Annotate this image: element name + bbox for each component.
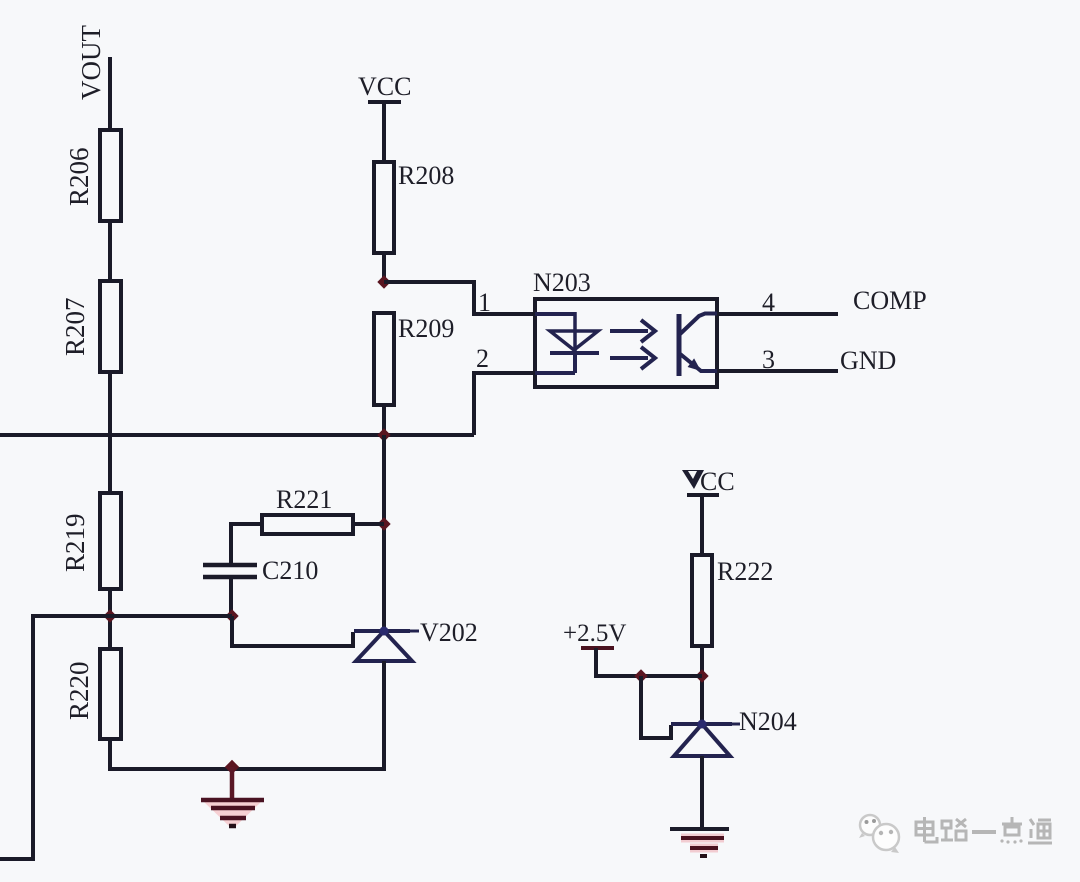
resistor R222: [692, 555, 712, 646]
wire VCC to R222: [700, 495, 704, 556]
wire R222 down to N204: [700, 646, 704, 726]
node COMP: [853, 286, 927, 315]
node GND: [840, 346, 896, 375]
watermark text dian: [916, 817, 937, 842]
resistor R207: [100, 281, 121, 372]
svg-text:R221: R221: [276, 485, 332, 514]
junction dot below R208: [377, 275, 390, 288]
svg-text:COMP: COMP: [853, 286, 927, 315]
opto phototransistor collector: [679, 314, 717, 336]
resistor R220: [100, 649, 121, 739]
wire pin 4 to COMP: [717, 312, 838, 316]
svg-text:R222: R222: [717, 557, 773, 586]
wire long horizontal net y=435: [0, 433, 474, 437]
watermark text dot: [1000, 817, 1022, 844]
resistor R221: [262, 515, 353, 534]
wire N204 anode to ground: [700, 756, 704, 830]
optocoupler N203 box: [535, 299, 717, 387]
opto LED cathode lead: [535, 353, 575, 373]
wire reference to V202: [232, 616, 353, 646]
svg-text:R206: R206: [64, 147, 94, 206]
label N204: [739, 707, 797, 736]
pin number 1: [478, 288, 491, 317]
label tie V202: [410, 630, 419, 633]
opto LED anode lead: [535, 312, 575, 353]
label R222: [717, 557, 773, 586]
svg-text:4: 4: [762, 288, 775, 317]
ground (left): [201, 767, 264, 826]
junction dot ground tap: [225, 760, 239, 774]
svg-text:1: 1: [478, 288, 491, 317]
power bar +2.5V: [581, 646, 614, 650]
wire R220 to bottom rail: [108, 739, 112, 771]
node +2.5V: [563, 620, 626, 647]
svg-text:N204: N204: [739, 707, 797, 736]
wire R206 to R207: [108, 221, 112, 282]
svg-text:VOUT: VOUT: [76, 25, 106, 100]
svg-text:VCC: VCC: [358, 72, 411, 101]
pin number 2: [476, 344, 489, 373]
pin number 3: [762, 345, 775, 374]
wire pin 3 to GND: [717, 369, 838, 373]
label tie N204: [732, 723, 740, 726]
wire main net down to V202 cathode: [382, 435, 386, 633]
junction dot R222 bottom: [695, 669, 708, 682]
label R209: [398, 314, 454, 343]
watermark text tong: [1028, 819, 1052, 843]
junction dot main net: [377, 428, 390, 441]
shunt regulator N204 cathode bar: [671, 722, 732, 726]
label V202: [420, 618, 478, 647]
shunt regulator N204 triangle: [674, 724, 730, 756]
label R206: [64, 147, 94, 206]
node VCC (top): [358, 72, 411, 101]
svg-text:C210: C210: [262, 556, 318, 585]
wire +2.5V to junction: [596, 648, 702, 676]
wire C210 down to junction: [229, 577, 233, 618]
opto LED triangle: [550, 331, 598, 350]
opto light arrow upper: [610, 320, 655, 342]
junction dot left rail: [103, 609, 116, 622]
opto phototransistor base: [677, 314, 682, 376]
label R207: [60, 297, 90, 356]
node VOUT: [76, 25, 106, 100]
opto phototransistor emitter: [679, 353, 717, 371]
wire R221 left to C210: [231, 524, 262, 565]
svg-text:R209: R209: [398, 314, 454, 343]
power bar VCC: [368, 100, 401, 104]
wire VOUT down to R206: [108, 57, 112, 131]
wire feedback tap to left edge: [0, 616, 110, 859]
wire VCC to R208: [382, 102, 386, 163]
wire bottom rail: [110, 767, 384, 771]
label C210: [262, 556, 318, 585]
svg-text:3: 3: [762, 345, 775, 374]
watermark icon: [859, 815, 899, 853]
node dot V202: [380, 627, 389, 636]
power bar VCC right: [687, 493, 719, 497]
svg-text:R207: R207: [60, 297, 90, 356]
resistor R208: [374, 162, 394, 253]
resistor R206: [100, 130, 121, 221]
node dot N204: [698, 720, 707, 729]
label R220: [64, 661, 94, 720]
resistor R209: [374, 313, 394, 405]
wire V202 anode down: [382, 661, 386, 771]
junction dot ref tap: [634, 669, 647, 682]
wire R207 to R219: [108, 372, 112, 494]
wire R208 to junction: [382, 253, 386, 284]
svg-text:R208: R208: [398, 161, 454, 190]
junction dot R221 right: [377, 517, 390, 530]
shunt regulator V202 triangle: [356, 631, 412, 661]
wire R209 to junction: [382, 405, 386, 435]
opto light arrow lower: [610, 347, 655, 369]
wire junction to left rail: [110, 614, 232, 618]
label R219: [60, 513, 90, 572]
wire R221 right to net: [353, 522, 384, 526]
opto LED cathode bar: [550, 351, 599, 355]
svg-text:R219: R219: [60, 513, 90, 572]
resistor R219: [100, 493, 121, 589]
watermark text yi: [972, 830, 996, 834]
svg-text:N203: N203: [533, 268, 591, 297]
ground (right): [670, 829, 729, 856]
label R208: [398, 161, 454, 190]
wire R219 to R220: [108, 589, 112, 650]
pin number 4: [762, 288, 775, 317]
shunt regulator V202 cathode bar: [354, 629, 410, 633]
label N203: [533, 268, 591, 297]
node VCC (right): [682, 467, 735, 496]
junction dot C210 bottom: [225, 609, 238, 622]
svg-text:+2.5V: +2.5V: [563, 620, 626, 647]
svg-text:CC: CC: [700, 467, 735, 496]
label R221: [276, 485, 332, 514]
svg-text:V202: V202: [420, 618, 478, 647]
svg-text:R220: R220: [64, 661, 94, 720]
svg-text:2: 2: [476, 344, 489, 373]
capacitor C210: [203, 565, 257, 577]
wire junction to opto pin 1: [384, 282, 535, 314]
wire opto pin 2 down to main net: [474, 373, 535, 435]
wire reference to N204: [641, 676, 671, 738]
watermark text lu: [941, 819, 966, 840]
svg-text:GND: GND: [840, 346, 896, 375]
